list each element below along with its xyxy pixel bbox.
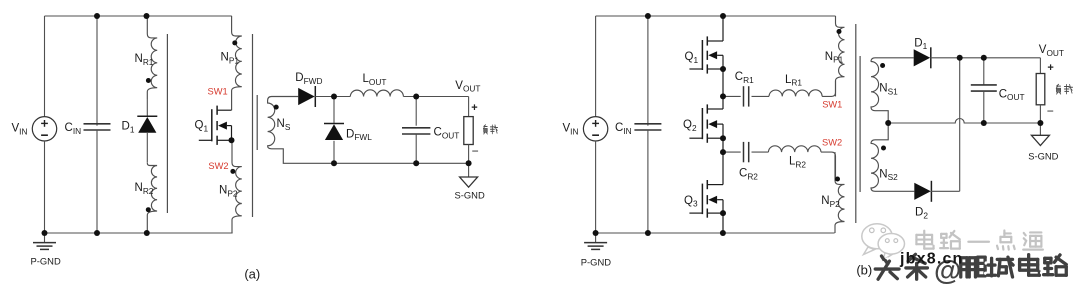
svg-text:+: + (1047, 62, 1053, 74)
svg-text:VOUT: VOUT (455, 80, 480, 94)
svg-text:CIN: CIN (65, 122, 82, 136)
svg-text:S-GND: S-GND (455, 189, 485, 200)
svg-text:D1: D1 (122, 121, 135, 135)
svg-text:(b): (b) (856, 263, 872, 278)
svg-text:NS1: NS1 (879, 83, 898, 97)
svg-text:S-GND: S-GND (1028, 151, 1058, 162)
svg-text:DFWL: DFWL (346, 128, 372, 142)
svg-text:D1: D1 (914, 37, 927, 51)
svg-text:CR1: CR1 (735, 71, 754, 85)
svg-text:+: + (471, 102, 477, 114)
svg-text:NP2: NP2 (821, 195, 840, 209)
svg-text:Q2: Q2 (683, 119, 697, 133)
svg-text:P-GND: P-GND (31, 256, 61, 267)
svg-text:−: − (472, 144, 479, 158)
svg-text:Q1: Q1 (685, 51, 699, 65)
svg-text:VIN: VIN (12, 123, 28, 137)
svg-text:COUT: COUT (999, 88, 1025, 102)
svg-text:−: − (1047, 104, 1054, 118)
svg-text:D2: D2 (915, 207, 928, 221)
svg-text:(a): (a) (244, 267, 260, 282)
svg-text:LOUT: LOUT (363, 73, 387, 87)
svg-text:NP2: NP2 (219, 185, 238, 199)
svg-text:LR2: LR2 (789, 156, 806, 170)
svg-text:Q3: Q3 (684, 195, 698, 209)
svg-text:DFWD: DFWD (295, 72, 322, 86)
svg-text:SW2: SW2 (208, 161, 228, 171)
svg-text:P-GND: P-GND (581, 256, 611, 267)
svg-text:SW2: SW2 (822, 138, 842, 148)
svg-text:VIN: VIN (563, 123, 579, 137)
svg-text:COUT: COUT (434, 127, 460, 141)
svg-text:jbx8.cn: jbx8.cn (899, 251, 964, 268)
svg-text:LR1: LR1 (785, 74, 802, 88)
svg-text:NP1: NP1 (221, 52, 240, 66)
svg-text:NS: NS (277, 118, 291, 132)
svg-text:CR2: CR2 (739, 168, 758, 182)
svg-text:SW1: SW1 (208, 87, 228, 97)
svg-text:CIN: CIN (615, 122, 632, 136)
svg-text:Q1: Q1 (195, 120, 209, 134)
svg-text:SW1: SW1 (822, 100, 842, 110)
svg-text:NS2: NS2 (879, 168, 898, 182)
svg-text:VOUT: VOUT (1039, 44, 1064, 58)
svg-text:NR2: NR2 (135, 182, 154, 196)
